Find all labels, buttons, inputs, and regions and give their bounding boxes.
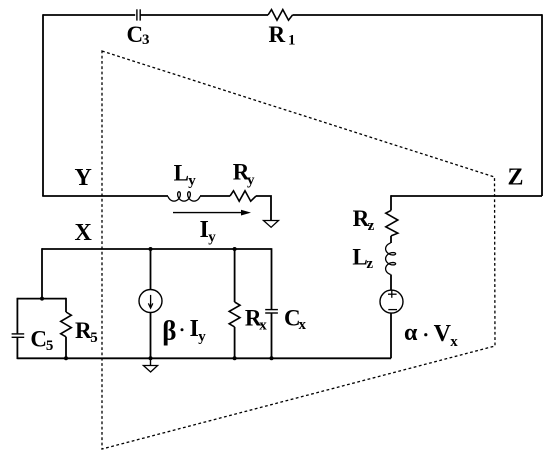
svg-text:x: x [259,318,267,334]
wire source top lead [150,249,152,290]
wire Z branch top [390,195,392,210]
inductor Ly [168,192,200,201]
dashed boundary box [102,51,495,449]
label Rz [353,206,375,234]
svg-text:L: L [174,160,189,185]
node junction X/source [149,247,153,251]
svg-text:R: R [269,22,286,47]
wire box top [17,298,66,300]
svg-text:y: y [208,230,216,246]
wire R5 bottom lead [65,337,67,359]
resistor R1 [268,10,293,21]
svg-text:5: 5 [90,330,98,346]
node junction Rx/bottom [233,356,237,360]
current arrow Iy [173,210,251,216]
wire top-left segment [43,14,135,16]
svg-text:α: α [404,320,418,346]
ground (Ry) [264,221,279,228]
node junction X/Rx [233,247,237,251]
label C5 [30,327,53,355]
capacitor C3 [137,9,140,20]
wire Cx top lead [271,248,273,309]
svg-text:Z: Z [508,165,524,191]
node junction R5/bottom [64,356,68,360]
resistor Rx [229,302,240,327]
wire X left drop [41,248,43,298]
label Rx [245,305,267,333]
wire Cx bottom lead [271,313,273,358]
wire C5 bottom lead [16,337,18,359]
svg-text:3: 3 [142,32,150,48]
svg-text:x: x [299,317,307,333]
current source beta*Iy [139,290,162,313]
svg-text:X: X [75,220,93,246]
voltage source alpha*Vx [380,290,403,313]
wire Y horizontal [42,195,168,197]
svg-text:Y: Y [75,165,92,191]
label Ry [233,160,255,189]
capacitor Cx [265,310,278,313]
svg-text:y: y [247,172,255,188]
label beta*Iy [162,316,206,346]
wire C5 top lead [16,298,18,334]
wire Rz to Lz [390,236,392,243]
svg-text:C: C [127,22,144,47]
resistor Rz [386,210,398,236]
label Iy [200,217,217,245]
node junction X-drop/box [40,297,44,301]
wire left vertical [42,14,44,196]
capacitor C5 [12,334,25,337]
svg-text:y: y [198,329,206,345]
svg-text:z: z [366,256,373,272]
wire Rx bottom lead [234,327,236,358]
svg-text:β: β [162,316,176,346]
resistor R5 [61,312,72,337]
label Ly [174,160,197,189]
resistor Ry [230,191,256,201]
label Lz [352,244,373,272]
wire Z horizontal [391,195,542,197]
wire source to bottom [390,313,392,358]
node junction Cx/bottom [270,356,274,360]
wire R5 top lead [65,298,67,312]
label alpha*Vx [404,320,458,350]
wire Ry to ground [256,196,271,221]
svg-text:y: y [188,173,196,189]
wire top-middle segment [140,14,268,16]
wire source bottom lead [150,313,152,359]
label C3 [127,22,150,48]
wire Rx top lead [234,249,236,302]
label R5 [75,318,98,346]
svg-text:1: 1 [288,33,296,49]
inductor Lz [386,243,396,275]
label Cx [284,305,307,332]
svg-text:V: V [434,321,452,347]
ground (bottom) [143,358,157,372]
wire Lz to source [390,275,392,291]
wire bottom rail [17,357,391,359]
wire Ly to Ry [200,195,230,197]
wire X horizontal [42,248,272,250]
wire top-right segment [293,14,543,16]
wire right vertical [541,14,543,196]
svg-text:5: 5 [46,338,54,354]
svg-text:C: C [30,327,47,352]
svg-text:z: z [368,218,375,234]
label R1 [269,22,296,49]
node junction source/bottom [149,356,153,360]
svg-text:x: x [450,334,458,350]
